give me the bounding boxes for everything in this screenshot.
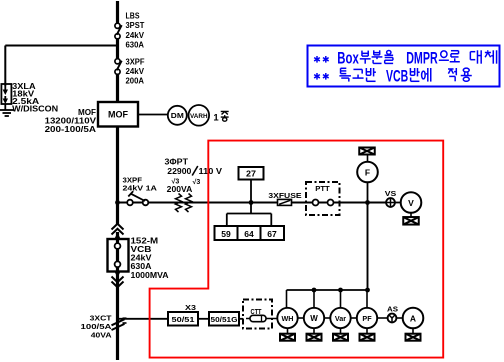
svg-text:59: 59 [221,230,231,239]
svg-text:110 V: 110 V [199,167,223,176]
svg-text:DM: DM [171,111,184,120]
svg-text:64: 64 [244,230,254,239]
svg-text:3XPF: 3XPF [126,58,145,67]
svg-text:50/51: 50/51 [172,317,195,324]
svg-text:A: A [410,313,416,323]
svg-text:MOF: MOF [108,109,128,119]
svg-text:200-100/5A: 200-100/5A [45,125,97,134]
svg-text:W: W [310,314,318,323]
svg-text:F: F [365,167,370,177]
svg-text:X3: X3 [185,303,196,312]
svg-text:24kV 1A: 24kV 1A [123,183,158,192]
svg-text:PF: PF [362,314,372,323]
svg-text:√3: √3 [193,178,201,186]
svg-text:50/51G: 50/51G [211,317,239,324]
svg-text:1: 1 [213,112,219,123]
svg-text:1000MVA: 1000MVA [131,271,169,280]
svg-text:22900: 22900 [167,167,192,176]
svg-text:CTT: CTT [251,307,262,316]
svg-text:VCB: VCB [386,67,408,86]
svg-text:VARH: VARH [190,113,208,120]
svg-text:Box: Box [337,49,359,68]
svg-text:200A: 200A [126,77,145,86]
svg-text:V: V [408,198,414,208]
svg-text:WH: WH [282,314,294,323]
svg-text:630A: 630A [126,41,145,50]
svg-text:67: 67 [267,230,277,239]
svg-text:DMPR: DMPR [406,49,438,68]
svg-text:3ΦPT: 3ΦPT [165,158,189,167]
svg-text:PTT: PTT [315,184,330,193]
svg-text:3PST: 3PST [126,21,145,30]
svg-text:200VA: 200VA [167,185,193,194]
svg-text:27: 27 [246,170,257,179]
svg-text:W/DISCON: W/DISCON [12,105,58,114]
svg-text:24kV: 24kV [126,67,145,76]
svg-text:Var: Var [335,314,346,323]
svg-text:24kV: 24kV [126,31,145,40]
svg-text:LBS: LBS [126,12,141,21]
svg-text:VS: VS [385,189,397,198]
svg-text:40VA: 40VA [91,331,112,340]
svg-text:AS: AS [387,304,398,313]
